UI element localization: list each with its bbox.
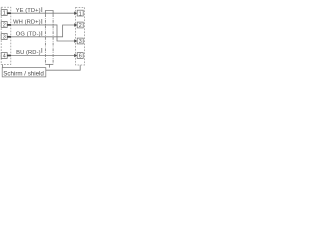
right pin 3 box [77,38,83,44]
shield tap to rail [48,64,50,67]
left pin 2 stub [7,24,11,26]
wire YE (TD+) left pin1 to right pin1 [11,12,75,14]
Schirm / shield label box [2,68,46,77]
tick after label row 1 [41,7,43,12]
arrow into right pin 2 [74,23,77,26]
tick after label row 2 [41,19,43,24]
shield wire to right connector [46,65,80,70]
left pin 3 box [1,34,7,40]
right pin 2 box [77,22,83,28]
right connector X2 dashed outline [76,7,85,65]
wire WH (RD+) left pin2 to right pin3 [11,25,75,41]
svg-text:3: 3 [3,35,6,41]
wire OG (TD-) left pin3 to right pin2 [11,25,75,37]
tick after label row 4 [41,48,43,53]
svg-text:3: 3 [79,39,82,45]
shield connection left connector to rail [2,65,4,68]
wire BU (RD-) left pin4 to right pin6 [11,55,75,57]
arrow into right pin 1 [74,12,77,15]
cable shield enclosure right dash-dot [52,14,54,64]
right pin 1 box [77,10,83,16]
svg-text:2: 2 [79,23,82,29]
svg-text:4: 4 [3,54,6,60]
arrow into right pin 6 [74,54,77,57]
left connector X1 dashed outline [1,7,11,64]
svg-text:Schirm / shield: Schirm / shield [3,71,44,78]
svg-text:OG (TD-): OG (TD-) [16,31,41,37]
left pin 4 box [1,53,7,59]
left pin 3 stub [7,36,11,38]
left pin 1 stub [7,12,11,14]
svg-text:2: 2 [3,23,6,29]
left pin 4 stub [7,55,11,57]
svg-text:6: 6 [79,54,82,60]
left pin 1 box [1,10,7,16]
svg-text:1: 1 [79,11,82,17]
svg-text:1: 1 [3,11,6,17]
arrow into right pin 3 [74,39,77,42]
left pin 2 box [1,22,7,28]
cable shield enclosure bottom bar [45,63,53,65]
tick after label row 3 [41,31,43,36]
svg-text:YE (TD+): YE (TD+) [16,8,41,14]
cable shield enclosure left dash-dot [44,14,46,64]
right pin 6 box [77,53,83,59]
svg-text:BU (RD-): BU (RD-) [16,50,40,56]
svg-text:WH (RD+): WH (RD+) [13,20,41,26]
cable shield enclosure top [45,11,53,15]
